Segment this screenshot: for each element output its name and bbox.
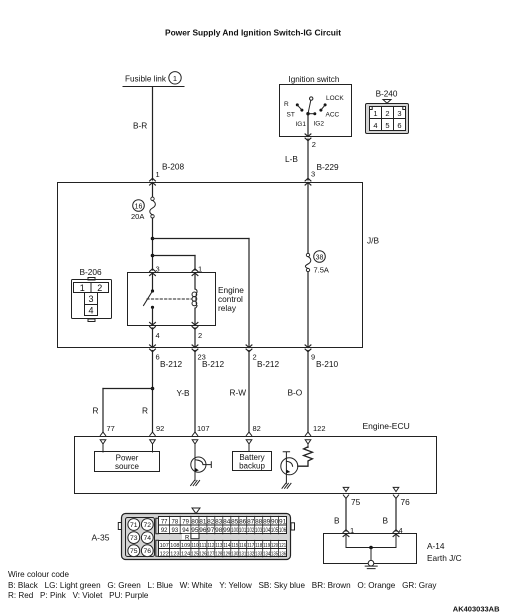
svg-text:Wire colour code: Wire colour code xyxy=(8,570,69,579)
vertical wire down to J/B pin 2 xyxy=(248,239,250,348)
J/B pin 6 exit chevron xyxy=(150,345,156,352)
transistor T2 xyxy=(281,458,298,475)
contact stub IG2 xyxy=(310,113,315,115)
A-35 left tab xyxy=(118,523,121,530)
svg-text:98: 98 xyxy=(215,528,223,534)
svg-text:133: 133 xyxy=(255,551,262,557)
svg-text:121: 121 xyxy=(279,543,286,549)
wire R from J/B pin 6 to ECU xyxy=(152,351,154,433)
svg-text:115: 115 xyxy=(231,543,238,549)
wire L-B ignition switch to J/B xyxy=(307,139,309,180)
svg-text:backup: backup xyxy=(239,461,265,470)
svg-text:3: 3 xyxy=(311,169,315,178)
svg-text:117: 117 xyxy=(247,543,254,549)
svg-text:106: 106 xyxy=(279,528,287,534)
connector B-240 body xyxy=(366,104,409,134)
fuse 16 symbol xyxy=(151,197,154,200)
svg-text:75: 75 xyxy=(351,497,361,507)
relay pin 2 chevron xyxy=(192,322,198,329)
svg-text:2: 2 xyxy=(385,109,389,118)
svg-text:1: 1 xyxy=(198,265,202,274)
wire Y-B to ECU xyxy=(194,351,196,433)
svg-text:119: 119 xyxy=(263,543,270,549)
svg-text:74: 74 xyxy=(144,535,152,542)
svg-text:123: 123 xyxy=(170,551,179,557)
svg-text:122: 122 xyxy=(313,424,326,433)
svg-text:87: 87 xyxy=(247,519,255,525)
relay coil wire top xyxy=(194,273,196,289)
connector B-240 triangle marker xyxy=(383,100,391,104)
fuse 38 wire from J/B top xyxy=(307,183,309,254)
svg-text:81: 81 xyxy=(199,519,207,525)
svg-text:R: R xyxy=(93,406,99,416)
svg-text:4: 4 xyxy=(88,306,93,316)
pin 75 fork below ECU xyxy=(343,495,348,498)
svg-text:16: 16 xyxy=(135,203,143,210)
wire B-R from fusible link to J/B xyxy=(152,87,154,180)
svg-text:L-B: L-B xyxy=(285,154,298,164)
svg-text:R: R xyxy=(284,101,289,108)
svg-text:130: 130 xyxy=(231,551,238,557)
svg-text:source: source xyxy=(115,462,140,471)
B-206 cell 2 xyxy=(91,283,109,293)
svg-text:107: 107 xyxy=(160,543,169,549)
wire B pin 75 to earth J/C xyxy=(345,498,347,531)
wire inside J/B down to fuse 16 xyxy=(152,183,154,197)
svg-text:89: 89 xyxy=(263,519,271,525)
svg-text:86: 86 xyxy=(239,519,247,525)
A-35 right tab xyxy=(291,523,295,530)
A-35 upper grid xyxy=(159,517,287,534)
svg-text:2: 2 xyxy=(198,331,202,340)
wire relay pin 2 to J/B pin 23 xyxy=(194,328,196,348)
relay pin 4 chevron xyxy=(150,322,156,329)
svg-text:75: 75 xyxy=(130,548,138,555)
wire from fuse to relay pin 3 xyxy=(152,218,154,270)
svg-text:1: 1 xyxy=(373,109,377,118)
switch arm pivot circle xyxy=(310,97,313,100)
stub pin 82 to battery backup xyxy=(248,444,250,452)
svg-text:relay: relay xyxy=(218,303,237,313)
svg-text:3: 3 xyxy=(88,294,93,304)
svg-text:88: 88 xyxy=(255,519,263,525)
branch wire to R-W feed xyxy=(153,238,250,240)
relay coil xyxy=(195,289,197,308)
A-35 grid column lines xyxy=(170,516,279,534)
svg-text:118: 118 xyxy=(255,543,262,549)
relay pin 3 chevron xyxy=(150,269,156,276)
ECU pin 75 triangle xyxy=(343,487,349,491)
fuse 38 symbol xyxy=(306,253,309,256)
svg-text:124: 124 xyxy=(181,551,190,557)
svg-text:B-229: B-229 xyxy=(317,162,340,172)
pin triangles inside ECU xyxy=(100,440,106,444)
transistor T2 ground xyxy=(285,474,287,483)
stub pin 107 to transistor xyxy=(194,444,196,458)
fuse 16 circled label xyxy=(133,200,145,212)
svg-text:Earth J/C: Earth J/C xyxy=(427,553,462,563)
connector A-35 body xyxy=(122,514,291,560)
Engine-ECU box xyxy=(75,437,437,494)
junction node at y=238 xyxy=(151,237,155,241)
svg-text:104: 104 xyxy=(263,528,271,534)
svg-text:116: 116 xyxy=(239,543,246,549)
relay contact top dot xyxy=(151,289,154,292)
engine control relay box xyxy=(128,273,216,326)
svg-text:100: 100 xyxy=(231,528,239,534)
svg-text:IG1: IG1 xyxy=(296,121,307,128)
svg-text:R: Red P: Pink V: Violet: R: Red P: Pink V: Violet PU: Purple xyxy=(8,591,149,600)
transistor T1 xyxy=(191,457,206,472)
svg-text:78: 78 xyxy=(172,519,179,525)
svg-text:112: 112 xyxy=(207,543,214,549)
wire relay pin 4 to J/B pin 6 xyxy=(152,328,154,348)
A-35 pin 74 xyxy=(141,532,153,544)
svg-text:1: 1 xyxy=(173,74,177,83)
svg-text:B: Black LG: Light green G: B: Black LG: Light green G: Green L: Blu… xyxy=(8,581,437,590)
chevron into J/B pin 3 xyxy=(305,178,311,185)
svg-text:7.5A: 7.5A xyxy=(314,265,329,274)
svg-text:101: 101 xyxy=(239,528,247,534)
battery backup box xyxy=(233,452,272,471)
svg-text:90: 90 xyxy=(271,519,279,525)
A-35 brackets xyxy=(156,518,159,556)
svg-text:R-W: R-W xyxy=(230,388,247,398)
svg-text:B-206: B-206 xyxy=(80,267,103,277)
relay contact to pin 4 xyxy=(152,307,154,325)
svg-text:111: 111 xyxy=(199,543,206,549)
svg-text:96: 96 xyxy=(199,528,207,534)
svg-text:76: 76 xyxy=(401,497,411,507)
contact stub R-ST xyxy=(297,105,302,110)
svg-text:B-208: B-208 xyxy=(162,161,185,171)
svg-text:108: 108 xyxy=(170,543,179,549)
svg-text:97: 97 xyxy=(207,528,215,534)
A-35 pin 73 xyxy=(128,532,140,544)
chevron out of ignition switch xyxy=(305,134,311,141)
svg-text:3: 3 xyxy=(397,109,401,118)
svg-text:110: 110 xyxy=(191,543,198,549)
svg-text:103: 103 xyxy=(255,528,263,534)
wire fuse 38 to J/B pin 9 xyxy=(307,272,309,348)
svg-text:134: 134 xyxy=(263,551,270,557)
svg-text:IG2: IG2 xyxy=(314,121,325,128)
svg-text:B-O: B-O xyxy=(288,388,303,398)
svg-text:128: 128 xyxy=(215,551,222,557)
svg-text:R: R xyxy=(142,406,148,416)
svg-text:77: 77 xyxy=(161,519,168,525)
earth J/C box A-14 xyxy=(324,534,417,564)
svg-text:4: 4 xyxy=(156,331,160,340)
J/B pin 2 exit chevron xyxy=(246,345,252,352)
junction block J/B box xyxy=(58,183,363,348)
relay contact bottom dot xyxy=(151,306,154,309)
svg-text:ACC: ACC xyxy=(326,112,340,119)
fusible link bar xyxy=(123,86,184,88)
svg-text:120: 120 xyxy=(271,543,278,549)
svg-text:B-240: B-240 xyxy=(376,89,398,98)
svg-text:82: 82 xyxy=(253,424,261,433)
relay mechanical link dashed xyxy=(147,298,192,300)
chevron into earth J/C pin 4 xyxy=(393,530,399,537)
earth J/C junction dot xyxy=(369,546,373,550)
svg-text:2: 2 xyxy=(312,140,316,149)
svg-text:1: 1 xyxy=(156,170,160,179)
T2 top lead with bar xyxy=(283,452,289,459)
svg-text:102: 102 xyxy=(247,528,255,534)
junction node for R branch xyxy=(151,387,155,391)
B-206 cell 3 xyxy=(85,293,98,305)
svg-text:Engine-ECU: Engine-ECU xyxy=(363,421,410,431)
svg-text:79: 79 xyxy=(182,519,189,525)
svg-text:125: 125 xyxy=(191,551,198,557)
switch arm xyxy=(308,100,311,113)
svg-text:83: 83 xyxy=(215,519,223,525)
svg-text:A-35: A-35 xyxy=(92,533,110,543)
branch wire to pin 77 xyxy=(103,388,153,390)
svg-text:94: 94 xyxy=(182,528,189,534)
wire B-O to ECU xyxy=(307,351,309,433)
B-206 cell 4 xyxy=(85,305,98,316)
svg-text:9: 9 xyxy=(311,353,315,362)
A-35 pin 75 xyxy=(128,545,140,557)
svg-text:R: R xyxy=(185,536,190,542)
svg-text:B-212: B-212 xyxy=(160,359,183,369)
svg-text:B: B xyxy=(383,516,389,526)
svg-text:71: 71 xyxy=(130,522,138,529)
power source box xyxy=(95,452,160,472)
svg-text:A-14: A-14 xyxy=(427,541,445,551)
svg-text:AK403033AB: AK403033AB xyxy=(453,605,500,614)
svg-text:80: 80 xyxy=(191,519,199,525)
connector B-206 body xyxy=(72,280,112,319)
svg-text:131: 131 xyxy=(239,551,246,557)
svg-text:B-210: B-210 xyxy=(316,359,339,369)
svg-text:95: 95 xyxy=(191,528,199,534)
A-35 pin 76 xyxy=(141,545,153,557)
A-35 pin 71 xyxy=(128,519,140,531)
svg-text:20A: 20A xyxy=(131,212,144,221)
A-35 lower grid xyxy=(159,541,287,557)
A-35 pin 72 xyxy=(141,519,153,531)
svg-text:82: 82 xyxy=(207,519,215,525)
svg-text:B-212: B-212 xyxy=(202,359,225,369)
earth ground symbol xyxy=(370,548,372,561)
svg-text:J/B: J/B xyxy=(367,236,379,246)
svg-text:127: 127 xyxy=(207,551,214,557)
svg-text:B-212: B-212 xyxy=(257,359,280,369)
switch contact dots xyxy=(296,103,327,115)
svg-text:105: 105 xyxy=(271,528,279,534)
svg-text:84: 84 xyxy=(223,519,231,525)
ignition switch box xyxy=(280,85,352,137)
relay coil wire bottom xyxy=(194,308,196,325)
svg-text:4: 4 xyxy=(373,121,377,130)
transistor T1 ground xyxy=(194,471,196,480)
svg-text:135: 135 xyxy=(271,551,278,557)
relay contact arm xyxy=(144,291,153,306)
connector A-35 triangle marker xyxy=(192,508,200,514)
relay contact wire xyxy=(152,273,154,291)
svg-text:Y-B: Y-B xyxy=(177,388,191,398)
ECU pin 76 triangle xyxy=(393,487,399,491)
svg-text:91: 91 xyxy=(279,519,287,525)
J/B pin 23 exit chevron xyxy=(192,345,198,352)
svg-text:93: 93 xyxy=(172,528,179,534)
svg-text:B: B xyxy=(334,516,340,526)
svg-text:5: 5 xyxy=(385,121,389,130)
svg-text:72: 72 xyxy=(144,522,152,529)
wire down to relay pin 1 xyxy=(194,256,196,271)
svg-text:B-R: B-R xyxy=(133,121,147,131)
wire R-W to ECU xyxy=(248,351,250,433)
svg-text:92: 92 xyxy=(156,424,164,433)
svg-text:1: 1 xyxy=(80,283,85,293)
svg-text:2: 2 xyxy=(97,283,102,293)
svg-text:LOCK: LOCK xyxy=(326,95,344,102)
branch wire to relay coil pin 1 xyxy=(153,255,196,257)
svg-text:6: 6 xyxy=(397,121,401,130)
svg-text:92: 92 xyxy=(161,528,168,534)
stub pin 92 to power source xyxy=(152,444,154,452)
fuse 38 circled label xyxy=(314,251,326,263)
J/B pin 9 exit chevron xyxy=(305,345,311,352)
B-206 cell 1 xyxy=(74,283,92,293)
fork terminals at ECU top xyxy=(100,432,105,435)
A-35 round-pin panel xyxy=(126,518,155,557)
A-35 middle key R xyxy=(182,534,199,540)
svg-text:76: 76 xyxy=(144,548,152,555)
chevron into earth J/C pin 1 xyxy=(343,530,349,537)
pin 76 fork below ECU xyxy=(393,495,398,498)
svg-text:ST: ST xyxy=(287,112,295,119)
svg-text:126: 126 xyxy=(199,551,206,557)
resistor from pin 122 xyxy=(307,444,309,448)
svg-text:73: 73 xyxy=(130,535,138,542)
svg-text:107: 107 xyxy=(197,424,210,433)
svg-text:38: 38 xyxy=(316,254,324,261)
svg-text:114: 114 xyxy=(223,543,230,549)
svg-text:Ignition switch: Ignition switch xyxy=(289,75,340,84)
stub pin 77 to power source xyxy=(102,444,104,452)
svg-text:132: 132 xyxy=(247,551,254,557)
fusible link circled 1 xyxy=(169,72,181,84)
wire B pin 76 to earth J/C xyxy=(395,498,397,531)
svg-text:136: 136 xyxy=(279,551,286,557)
svg-text:Power Supply And Ignition Swit: Power Supply And Ignition Switch-IG Circ… xyxy=(165,28,341,38)
connector B-240 grid xyxy=(370,107,406,131)
svg-text:109: 109 xyxy=(181,543,190,549)
contact stub LOCK-ACC xyxy=(321,105,325,110)
svg-text:129: 129 xyxy=(223,551,230,557)
svg-text:3: 3 xyxy=(156,265,160,274)
svg-text:Fusible link: Fusible link xyxy=(125,74,167,83)
junction node at y=255 xyxy=(151,254,155,258)
svg-text:122: 122 xyxy=(160,551,169,557)
svg-text:99: 99 xyxy=(223,528,231,534)
relay pin 1 chevron xyxy=(192,269,198,276)
svg-text:85: 85 xyxy=(231,519,239,525)
earth J/C internal wires xyxy=(346,534,396,548)
svg-text:77: 77 xyxy=(107,424,115,433)
svg-text:113: 113 xyxy=(215,543,222,549)
wire from switch to box edge xyxy=(307,114,309,137)
chevron into J/B pin 1 xyxy=(150,178,156,185)
